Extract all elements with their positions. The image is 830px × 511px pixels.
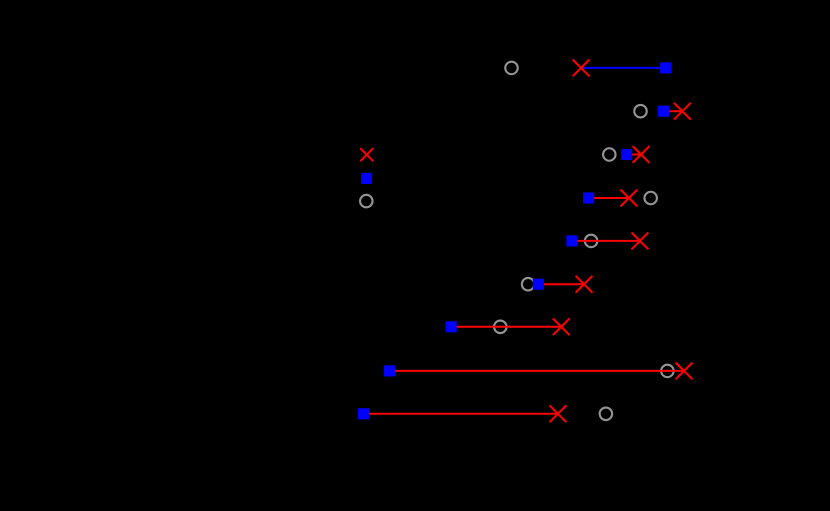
row 2 red segment [664, 110, 683, 112]
row 4 circle [644, 192, 657, 205]
row 7 circle [494, 321, 507, 334]
row 8 circle [661, 365, 674, 378]
row 9 X [550, 405, 567, 422]
row 7 square [446, 321, 457, 332]
row 7 X [553, 318, 570, 335]
row 9 circle [600, 408, 613, 421]
row 9 square [358, 408, 369, 419]
row 2 square [658, 106, 669, 117]
row 7 red segment [451, 326, 561, 328]
row 3 red segment [627, 154, 641, 156]
row 8 square [384, 365, 395, 376]
row 8 red segment [389, 370, 684, 372]
row 8 X [676, 363, 693, 380]
row 6 X [576, 276, 593, 293]
row 6 red segment [538, 283, 584, 285]
row 3 X [633, 146, 650, 163]
row 4 X [621, 190, 638, 207]
legend X marker [360, 148, 373, 161]
row 9 red segment [363, 413, 558, 415]
row 2 X [674, 103, 691, 120]
row 5 red segment [572, 240, 640, 242]
row 2 circle [634, 105, 647, 118]
legend circle marker [360, 195, 373, 208]
row 5 X [632, 233, 649, 250]
row 1 square [660, 62, 671, 73]
row 5 square [566, 235, 577, 246]
row 3 square [621, 149, 632, 160]
row 1 X [573, 60, 590, 77]
row 1 circle [505, 62, 518, 75]
row 3 circle [603, 148, 616, 161]
row 6 circle [522, 278, 535, 291]
row 6 square [533, 279, 544, 290]
row 4 red segment [589, 197, 629, 199]
row 5 circle [585, 235, 598, 248]
legend square marker [361, 173, 372, 184]
row 4 square [583, 192, 594, 203]
row 1 blue segment [581, 67, 666, 69]
